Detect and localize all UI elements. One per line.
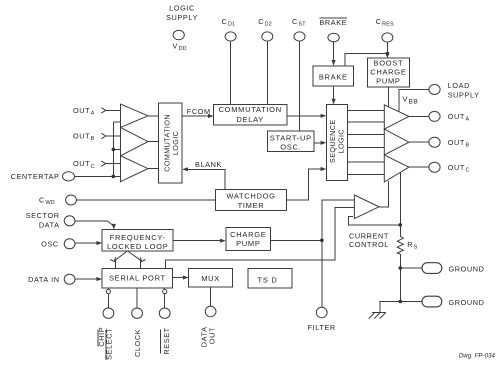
pin DATA IN [28, 274, 75, 284]
junction dot ground 2 [399, 300, 403, 304]
pin RESET [159, 308, 170, 318]
wire boost pump to VBB rail / driver A [387, 87, 389, 106]
svg-text:CURRENT: CURRENT [349, 231, 389, 240]
pin OSC [41, 239, 75, 249]
wire serial port to CLOCK pin [136, 288, 138, 308]
wire start-up osc to sequence logic [314, 142, 323, 144]
wire BRAKE block to sequence logic [333, 86, 335, 101]
svg-text:BOOST: BOOST [374, 59, 404, 68]
svg-text:PUMP: PUMP [376, 76, 400, 85]
pin GROUND 1 [422, 263, 485, 274]
wire BLANK watchdog to commutation logic [186, 169, 225, 189]
svg-text:START-UP: START-UP [270, 133, 312, 142]
wire comparator 2 output [148, 141, 159, 143]
pin FILTER [308, 307, 336, 332]
block FREQUENCY-LOCKED LOOP [102, 230, 173, 251]
block CHARGE PUMP [226, 228, 271, 251]
wire MUX to DATA OUT pin [210, 287, 212, 306]
pin CRES [376, 17, 394, 42]
wire bubble to CHIP SELECT pin [107, 294, 109, 308]
block START-UP OSC [267, 131, 314, 152]
svg-text:OSC.: OSC. [280, 143, 301, 152]
wire comparator 1 output [148, 115, 159, 117]
pin OUT A [429, 111, 470, 122]
svg-text:CHARGE: CHARGE [370, 67, 406, 76]
comparator 2 (phase B) [121, 127, 149, 155]
svg-text:BRAKE: BRAKE [319, 72, 348, 81]
wire sequence logic drive line 3 [348, 134, 385, 136]
wire serial port DAC rail to current control amp [165, 207, 354, 268]
svg-text:TIMER: TIMER [238, 201, 265, 210]
output driver A [384, 105, 409, 129]
wire CWD to watchdog timer [76, 199, 215, 201]
wire CENTERTAP to comparator references [75, 175, 122, 177]
wire CD1 to commutation delay [230, 41, 232, 105]
wire to GROUND pin 2 [400, 301, 422, 303]
svg-text:SERIAL PORT: SERIAL PORT [109, 274, 166, 283]
pin BRAKE (active low) [319, 18, 347, 42]
comparator 1 (phase A) [121, 104, 149, 127]
bubble RESET [163, 289, 167, 293]
svg-text:CLOCK: CLOCK [133, 329, 142, 357]
block TSD [248, 269, 292, 289]
pin OUT C [429, 162, 470, 173]
svg-text:PUMP: PUMP [236, 239, 260, 248]
wire CD2 to commutation delay [266, 41, 268, 105]
wire serial port to CHIP SELECT bubble [107, 288, 109, 289]
bus arrows serial port to FLL [110, 251, 145, 269]
wire OUT A to comparator 1 [106, 109, 121, 111]
wire FLL to charge pump [173, 240, 222, 242]
wire DATA IN to serial port [75, 278, 99, 280]
pin CENTERTAP [11, 172, 75, 181]
wire OSC to FLL [75, 242, 99, 244]
wire stub right [140, 261, 142, 269]
svg-text:RESET: RESET [162, 327, 171, 354]
resistor RS [397, 236, 403, 254]
pin CLOCK [132, 308, 143, 318]
wire centertap vertical branch [112, 122, 114, 176]
wire commutation delay to sequence logic [287, 115, 323, 117]
wire sequence logic drive line 4 [348, 147, 385, 149]
block COMMUTATION DELAY [214, 105, 287, 125]
wire sequence logic drive line 6 [348, 174, 385, 176]
junction dot centertap/comp2 [112, 148, 116, 152]
svg-text:GROUND: GROUND [449, 298, 485, 307]
svg-text:TS D: TS D [258, 275, 278, 284]
pin CST [292, 17, 306, 41]
wire CRES to boost charge pump with branch to brake box [386, 42, 388, 54]
block MUX [189, 269, 233, 288]
wire diagonal left [114, 251, 127, 261]
svg-text:CENTERTAP: CENTERTAP [11, 172, 60, 181]
pin OUT B [429, 137, 470, 148]
svg-text:BLANK: BLANK [195, 160, 222, 169]
chevron input OUT A [101, 108, 106, 113]
pin CD1 [222, 17, 237, 41]
junction dot centertap/comp3 [112, 175, 116, 179]
pin LOGIC SUPPLY VDD [166, 4, 198, 53]
chevron input OUT C [101, 161, 106, 166]
svg-text:LOGIC: LOGIC [337, 129, 346, 153]
svg-text:FCOM: FCOM [187, 107, 211, 116]
wire serial port to MUX [173, 277, 186, 279]
svg-text:OUT: OUT [208, 327, 217, 344]
op-amp current control [354, 195, 379, 219]
wire sequence logic drive line 1 [348, 109, 385, 111]
pin LOAD SUPPLY [429, 81, 480, 99]
wire OUT C to comparator 3 [106, 163, 121, 165]
open arrowhead left [110, 257, 115, 261]
svg-text:LOGIC: LOGIC [171, 131, 180, 155]
junction dot ground 1 [399, 266, 403, 270]
wire branch to comparator 2 lower input [113, 148, 121, 150]
comparator 3 (phase C) [121, 156, 149, 182]
wire bubble to RESET pin [164, 294, 166, 308]
output driver C [384, 155, 409, 182]
chevron input OUT B [101, 133, 106, 138]
svg-text:DATA IN: DATA IN [28, 275, 60, 284]
wire driver C to OUT C pin [409, 166, 429, 168]
block WATCHDOG TIMER [215, 190, 286, 211]
wire to GROUND pin 1 [400, 267, 422, 269]
svg-text:SUPPLY: SUPPLY [166, 13, 198, 22]
wire amp output up to driver C [379, 181, 388, 207]
wire charge pump output rail to filter node [271, 239, 322, 241]
svg-text:MUX: MUX [201, 274, 220, 283]
svg-text:DATA: DATA [39, 220, 60, 229]
wire OUT B to comparator 2 [106, 135, 121, 137]
wire sense line from drivers through RS [399, 173, 401, 237]
block SEQUENCE LOGIC [326, 104, 347, 180]
block COMMUTATION LOGIC [159, 103, 183, 183]
wire branch to comparator 1 lower input [113, 121, 121, 123]
open arrowhead right [140, 257, 145, 261]
block SERIAL PORT [102, 268, 173, 288]
output driver B [384, 129, 409, 155]
wire sequence logic drive line 2 [348, 121, 385, 123]
wire amp feedback from sense node [348, 217, 400, 225]
wire SECTOR DATA to FLL top [75, 220, 107, 222]
pin GROUND 2 [422, 296, 485, 307]
pin SECTOR DATA [26, 211, 75, 229]
svg-text:CHARGE: CHARGE [230, 230, 266, 239]
pin DATA OUT [205, 306, 216, 316]
pin CD2 [258, 17, 273, 41]
ground (chassis) [369, 312, 386, 318]
wire filter node vertical / amp upper input [322, 200, 355, 307]
bubble CHIP SELECT [106, 289, 110, 293]
svg-text:OSC: OSC [41, 239, 59, 248]
svg-text:GROUND: GROUND [449, 264, 485, 273]
wire CRES node to brake box top [345, 54, 387, 66]
wire BRAKE pin to BRAKE block [333, 42, 335, 62]
block BOOST CHARGE PUMP [367, 58, 409, 87]
wire FCOM commutation logic to commutation delay [182, 115, 210, 117]
svg-text:BRAKE: BRAKE [319, 18, 347, 27]
svg-text:LOGIC: LOGIC [169, 4, 195, 13]
svg-text:FILTER: FILTER [308, 323, 336, 332]
wire watchdog timer to sequence logic [287, 169, 323, 200]
wire comparator 3 output [148, 168, 159, 170]
wire driver A to OUT A pin [409, 115, 429, 117]
wire to chassis ground [380, 302, 400, 313]
svg-text:LOAD: LOAD [448, 81, 470, 90]
wire CST to start-up osc [299, 41, 301, 131]
svg-text:CONTROL: CONTROL [349, 240, 389, 249]
block BRAKE [313, 66, 354, 86]
wire driver B to OUT B pin [409, 141, 429, 143]
svg-text:LOCKED LOOP: LOCKED LOOP [107, 242, 168, 251]
pin CWD [39, 195, 76, 206]
wire sequence logic drive line 5 [348, 161, 385, 163]
svg-text:Dwg. FP-034: Dwg. FP-034 [459, 353, 496, 360]
wire diagonal right [127, 251, 141, 261]
svg-text:COMMUTATION: COMMUTATION [219, 105, 282, 114]
junction dot amp feedback / sense line [399, 223, 403, 227]
wire LOAD SUPPLY to VBB node on driver A [399, 90, 429, 112]
svg-text:SUPPLY: SUPPLY [448, 91, 480, 100]
svg-text:SECTOR: SECTOR [26, 211, 60, 220]
junction dot charge pump / filter node [320, 239, 324, 243]
wire serial port to RESET bubble [164, 288, 166, 289]
wire stub left [114, 261, 116, 269]
wire sense line below RS [399, 254, 401, 301]
svg-text:FREQUENCY-: FREQUENCY- [110, 233, 166, 242]
pin CHIP SELECT [103, 308, 114, 318]
svg-text:DELAY: DELAY [236, 115, 264, 124]
svg-text:WATCHDOG: WATCHDOG [226, 192, 275, 201]
